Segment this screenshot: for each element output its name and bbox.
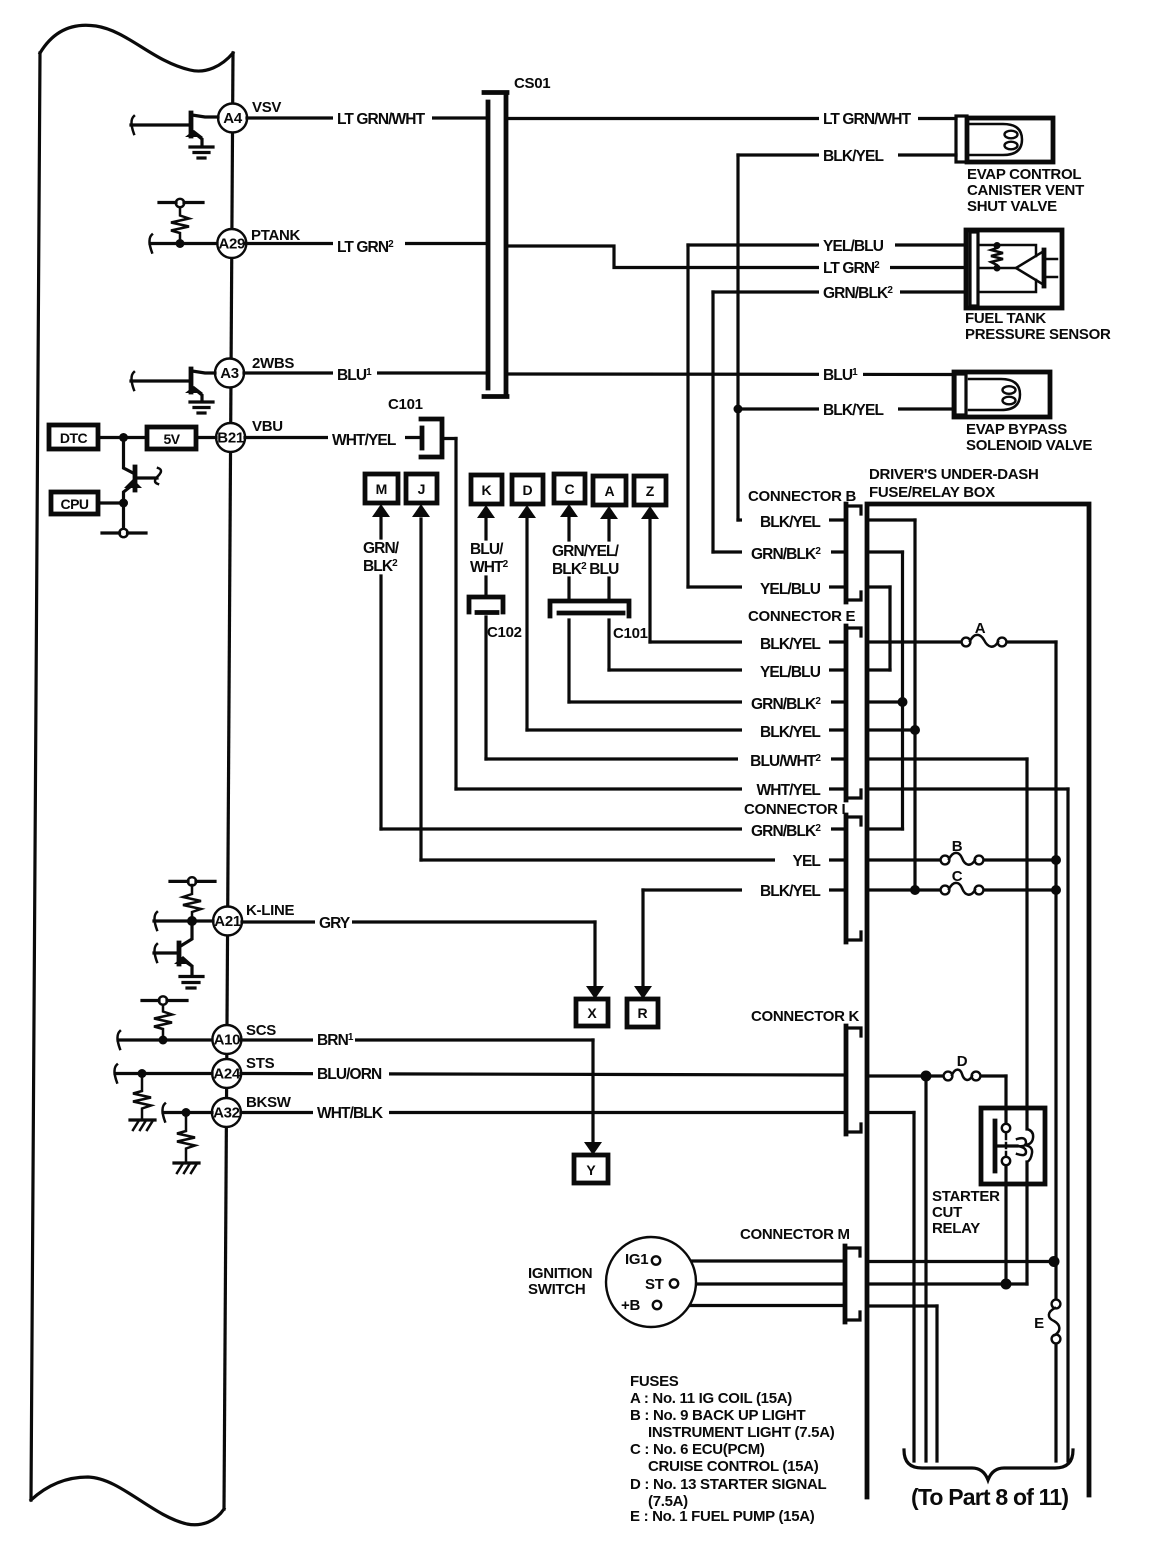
- EVAP control canister vent shut valve: [956, 116, 1084, 215]
- wire GRY row: [242, 920, 595, 923]
- svg-text:C : No. 6 ECU(PCM): C : No. 6 ECU(PCM): [630, 1441, 765, 1458]
- svg-text:CONNECTOR B: CONNECTOR B: [748, 488, 857, 505]
- svg-text:GRN/YEL/: GRN/YEL/: [552, 543, 620, 560]
- wire ECM torn bottom edge: [31, 1477, 224, 1525]
- wire connector B GRN/BLK row: [713, 550, 845, 553]
- svg-text:DRIVER'S UNDER-DASH: DRIVER'S UNDER-DASH: [869, 466, 1039, 483]
- wire 2WBS BLU row: [244, 371, 486, 374]
- wire fuse D to relay: [1004, 1076, 1007, 1124]
- ground at Q4: [180, 977, 203, 989]
- node A29 (PTANK pin): [217, 229, 246, 258]
- wire vertical in box BLK/YEL: [913, 520, 916, 890]
- svg-text:D : No. 13 STARTER SIGNAL: D : No. 13 STARTER SIGNAL: [630, 1476, 827, 1493]
- wire ECM torn top edge: [40, 25, 233, 71]
- wire connector E YEL/BLU row: [607, 620, 610, 670]
- svg-text:BLK2 BLU: BLK2 BLU: [552, 561, 619, 578]
- svg-text:B21: B21: [217, 430, 244, 447]
- wire connector B YEL/BLU row: [688, 585, 845, 588]
- svg-text:C: C: [564, 481, 574, 497]
- svg-text:SOLENOID VALVE: SOLENOID VALVE: [966, 437, 1092, 454]
- svg-text:A32: A32: [213, 1105, 240, 1122]
- wire VSV LT GRN/WHT row: [247, 116, 486, 119]
- svg-text:A: A: [975, 620, 986, 637]
- svg-text:WHT/YEL: WHT/YEL: [332, 432, 396, 449]
- fuse C: [941, 868, 984, 895]
- wire connector E BLK/YEL row 2: [525, 518, 528, 730]
- wire stub A to C101: [607, 578, 610, 600]
- svg-text:SHUT VALVE: SHUT VALVE: [967, 198, 1057, 215]
- wire connector E BLU/WHT row: [484, 617, 487, 759]
- svg-text:B : No. 9 BACK UP LIGHT: B : No. 9 BACK UP LIGHT: [630, 1407, 805, 1424]
- svg-text:PRESSURE SENSOR: PRESSURE SENSOR: [965, 326, 1111, 343]
- svg-text:IGNITION: IGNITION: [528, 1265, 592, 1282]
- connector B bracket: [748, 488, 861, 602]
- LEGEND: [630, 1373, 835, 1525]
- connector C102: [469, 597, 522, 641]
- svg-text:YEL/BLU: YEL/BLU: [760, 664, 821, 681]
- connector K bracket: [751, 1008, 861, 1134]
- transistor Q4 at A21: [154, 921, 192, 975]
- svg-text:CONNECTOR K: CONNECTOR K: [751, 1008, 860, 1025]
- wire vertical fuse D branch down: [924, 1076, 927, 1461]
- svg-text:A10: A10: [214, 1032, 241, 1049]
- wire stub C to C101: [567, 578, 570, 600]
- connector I bracket: [744, 801, 861, 942]
- svg-text:D: D: [957, 1053, 968, 1070]
- svg-text:BLK/YEL: BLK/YEL: [823, 402, 883, 419]
- fuse E: [1034, 1300, 1060, 1344]
- svg-text:A: A: [604, 483, 614, 499]
- node A24 (STS pin): [212, 1059, 241, 1088]
- resistor pull-up at A21: [154, 877, 215, 930]
- wire BLK/YEL vent valve row: [738, 153, 956, 156]
- node R: [627, 890, 658, 1027]
- wire BKSW WHT/BLK row: [241, 1111, 845, 1114]
- junction dots: [734, 405, 743, 414]
- svg-text:INSTRUMENT LIGHT (7.5A): INSTRUMENT LIGHT (7.5A): [648, 1424, 835, 1441]
- svg-text:A : No. 11 IG COIL (15A): A : No. 11 IG COIL (15A): [630, 1390, 792, 1407]
- svg-text:STARTER: STARTER: [932, 1188, 1000, 1205]
- svg-text:ST: ST: [645, 1276, 664, 1293]
- wire YEL/BLU sensor row: [688, 243, 966, 246]
- svg-text:IG1: IG1: [625, 1251, 648, 1268]
- svg-text:CS01: CS01: [514, 75, 550, 92]
- wire connector E WHT/YEL row: [456, 787, 845, 790]
- svg-text:DTC: DTC: [60, 430, 88, 446]
- svg-text:+B: +B: [621, 1297, 640, 1314]
- wire vertical YEL/BLU to connector B: [686, 245, 689, 587]
- node K: [471, 475, 502, 539]
- svg-text:C: C: [952, 868, 963, 885]
- node A21 (K-LINE pin): [213, 907, 242, 936]
- svg-text:VBU: VBU: [252, 418, 283, 435]
- svg-text:CUT: CUT: [932, 1204, 962, 1221]
- wire vertical BLK/YEL to connector B: [736, 155, 739, 520]
- ground at Q1: [190, 147, 213, 158]
- svg-text:BLK/YEL: BLK/YEL: [823, 148, 883, 165]
- connector C101 (main harness): [550, 601, 648, 642]
- svg-text:FUSES: FUSES: [630, 1373, 679, 1390]
- node A4 (VSV pin): [218, 104, 247, 133]
- svg-text:M: M: [376, 481, 388, 497]
- svg-text:2WBS: 2WBS: [252, 355, 294, 372]
- svg-text:K: K: [481, 482, 491, 498]
- transistor Q2 at A3: [131, 369, 215, 401]
- svg-text:R: R: [637, 1005, 647, 1021]
- wire vertical in box GRN/BLK: [901, 552, 904, 829]
- fuse A: [962, 620, 1007, 647]
- fuel tank pressure sensor: [965, 230, 1111, 343]
- svg-text:YEL: YEL: [793, 853, 821, 870]
- svg-text:RELAY: RELAY: [932, 1220, 980, 1237]
- svg-text:GRN/BLK2: GRN/BLK2: [751, 546, 821, 563]
- svg-text:Y: Y: [586, 1162, 596, 1178]
- transistor Q1 at A4: [131, 113, 218, 146]
- svg-text:X: X: [587, 1005, 597, 1021]
- node A10 (SCS pin): [212, 1025, 241, 1054]
- connector CS01: [484, 75, 550, 397]
- svg-text:BLU/WHT2: BLU/WHT2: [750, 753, 821, 770]
- svg-text:A29: A29: [218, 236, 245, 253]
- svg-text:A21: A21: [214, 913, 241, 930]
- wire vertical GRN/BLK to connector B: [711, 292, 714, 552]
- node Z: [634, 476, 666, 519]
- svg-text:SWITCH: SWITCH: [528, 1281, 585, 1298]
- svg-text:BLU/ORN: BLU/ORN: [317, 1066, 382, 1083]
- node A: [593, 476, 626, 540]
- ignition switch: [528, 1237, 696, 1327]
- svg-text:GRN/: GRN/: [363, 540, 400, 557]
- wire BRN row: [241, 1038, 593, 1041]
- FUSE BOX: [528, 466, 1089, 1510]
- svg-text:K-LINE: K-LINE: [246, 902, 294, 919]
- wire connector B BLK/YEL row: [738, 518, 845, 521]
- resistor pull-down at A32: [163, 1104, 213, 1174]
- svg-text:C101: C101: [388, 396, 423, 413]
- svg-text:C101: C101: [613, 625, 648, 642]
- svg-text:A24: A24: [213, 1066, 241, 1083]
- svg-text:GRN/BLK2: GRN/BLK2: [751, 696, 821, 713]
- svg-text:(To Part 8 of 11): (To Part 8 of 11): [911, 1484, 1068, 1510]
- fuse D: [944, 1053, 981, 1080]
- wire vertical WHT/YEL to connector E: [454, 439, 457, 790]
- connector E bracket: [748, 608, 861, 800]
- starter cut relay: [932, 1108, 1045, 1237]
- svg-text:STS: STS: [246, 1055, 275, 1072]
- wire connector I YEL row: [419, 519, 422, 860]
- ground at Q2: [190, 402, 213, 413]
- fuse B: [941, 838, 984, 865]
- svg-text:WHT/BLK: WHT/BLK: [317, 1105, 384, 1122]
- svg-text:SCS: SCS: [246, 1022, 276, 1039]
- svg-text:VSV: VSV: [252, 99, 281, 116]
- svg-text:BLK/YEL: BLK/YEL: [760, 514, 820, 531]
- wire vertical +B down: [935, 1306, 938, 1461]
- DEVICES: [954, 116, 1111, 454]
- svg-text:PTANK: PTANK: [251, 227, 301, 244]
- svg-text:BLU/: BLU/: [470, 541, 504, 558]
- svg-text:YEL/BLU: YEL/BLU: [823, 238, 884, 255]
- svg-text:BLK/YEL: BLK/YEL: [760, 883, 820, 900]
- svg-text:CPU: CPU: [60, 496, 88, 512]
- node A32 (BKSW pin): [212, 1098, 241, 1127]
- svg-text:A4: A4: [223, 110, 243, 127]
- wire relay coil to ST: [1004, 1165, 1007, 1284]
- svg-text:LT GRN2: LT GRN2: [823, 260, 880, 277]
- node M: [365, 474, 398, 538]
- svg-text:BLK/YEL: BLK/YEL: [760, 724, 820, 741]
- wire STS BLU/ORN row: [241, 1074, 845, 1076]
- svg-text:CONNECTOR M: CONNECTOR M: [740, 1226, 850, 1243]
- EVAP bypass solenoid valve: [954, 372, 1092, 454]
- wire vertical in box YEL/BLU: [888, 587, 891, 670]
- svg-text:E : No. 1 FUEL PUMP (15A): E : No. 1 FUEL PUMP (15A): [630, 1508, 815, 1525]
- svg-text:CONNECTOR I: CONNECTOR I: [744, 801, 846, 818]
- wire connector I GRN/BLK row: [379, 576, 382, 829]
- INTERNALS: [49, 113, 218, 1173]
- node J: [406, 474, 437, 517]
- connector C101 (ECM side): [388, 396, 442, 457]
- svg-text:GRN/BLK2: GRN/BLK2: [751, 823, 821, 840]
- wire ECM left edge: [31, 53, 40, 1500]
- wire connector E GRN/BLK row: [567, 620, 570, 702]
- svg-text:BLK/YEL: BLK/YEL: [760, 636, 820, 653]
- node D: [512, 475, 543, 518]
- svg-text:J: J: [418, 481, 426, 497]
- PIN CIRCLES: [212, 99, 301, 1127]
- brace to part 8 of 11: [904, 1450, 1073, 1510]
- svg-text:GRN/BLK2: GRN/BLK2: [823, 285, 893, 302]
- svg-text:FUEL TANK: FUEL TANK: [965, 310, 1046, 327]
- svg-text:B: B: [952, 838, 963, 855]
- svg-text:LT GRN2: LT GRN2: [337, 239, 394, 256]
- ECM OUTLINE: [31, 25, 233, 1525]
- svg-text:CRUISE CONTROL (15A): CRUISE CONTROL (15A): [648, 1458, 819, 1475]
- svg-text:BKSW: BKSW: [246, 1094, 292, 1111]
- node C: [554, 474, 585, 540]
- resistor DTC/5V network at B21: [49, 425, 216, 449]
- label masks: [313, 107, 918, 1123]
- resistor pull-up at A10: [118, 996, 213, 1049]
- svg-text:CONNECTOR E: CONNECTOR E: [748, 608, 856, 625]
- wire VBU WHT/YEL row: [245, 436, 421, 439]
- wire vertical WHT/YEL feed: [1066, 789, 1069, 1461]
- node Y: [574, 1040, 608, 1183]
- resistor pull-up at A29: [150, 199, 218, 253]
- svg-text:Z: Z: [646, 483, 655, 499]
- node X: [576, 922, 608, 1026]
- LETTER BOXES: [363, 474, 666, 1183]
- svg-text:5V: 5V: [163, 431, 180, 447]
- wire ST row: [678, 1282, 845, 1285]
- wire vertical BLU/WHT through relay to ST: [1025, 759, 1028, 1129]
- svg-text:WHT/YEL: WHT/YEL: [757, 782, 821, 799]
- wire connector E BLK/YEL fuse A row: [648, 519, 651, 642]
- CPU box: [51, 492, 146, 537]
- transistor Q3 at B21/CPU: [124, 438, 162, 504]
- svg-text:D: D: [522, 482, 532, 498]
- wire GRN/BLK sensor row: [713, 290, 966, 293]
- wire +B row: [661, 1304, 845, 1307]
- wire vertical WHT/BLK down: [912, 1113, 915, 1462]
- svg-text:EVAP BYPASS: EVAP BYPASS: [966, 421, 1067, 438]
- wire connector I BLK/YEL row: [643, 888, 845, 891]
- wire stub K to C102: [484, 577, 487, 596]
- wire vertical fuse A feed: [1054, 642, 1057, 1300]
- svg-text:LT GRN/WHT: LT GRN/WHT: [823, 111, 912, 128]
- svg-text:C102: C102: [487, 624, 522, 641]
- svg-text:A3: A3: [220, 365, 239, 382]
- wire BLK/YEL bypass valve row: [738, 407, 954, 410]
- svg-text:LT GRN/WHT: LT GRN/WHT: [337, 111, 426, 128]
- wire PTANK LT GRN row: [246, 242, 486, 245]
- svg-text:YEL/BLU: YEL/BLU: [760, 581, 821, 598]
- wire ECM pin bus vertical: [224, 53, 233, 1509]
- svg-text:GRY: GRY: [319, 915, 351, 932]
- svg-text:E: E: [1034, 1315, 1044, 1332]
- CONNECTOR SYMBOLS: [388, 75, 648, 642]
- svg-text:FUSE/RELAY BOX: FUSE/RELAY BOX: [869, 484, 995, 501]
- resistor pull-down at A24: [115, 1065, 213, 1131]
- node B21 (VBU pin): [216, 423, 245, 452]
- svg-text:EVAP CONTROL: EVAP CONTROL: [967, 166, 1081, 183]
- connector M bracket: [740, 1226, 860, 1322]
- node A3 (2WBS pin): [215, 359, 244, 388]
- svg-text:CANISTER VENT: CANISTER VENT: [967, 182, 1084, 199]
- wire IG1 row: [660, 1259, 845, 1262]
